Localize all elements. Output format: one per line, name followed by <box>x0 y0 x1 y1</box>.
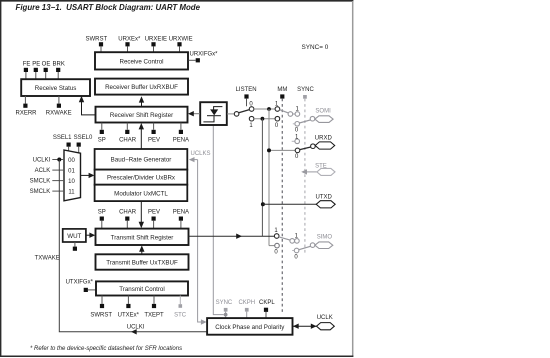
stub left of SOMI contact 0 <box>293 123 295 125</box>
pin square MM <box>280 94 284 98</box>
svg-text:LISTEN: LISTEN <box>236 87 257 93</box>
pin square OE <box>44 68 48 72</box>
svg-text:SIMO: SIMO <box>317 235 333 241</box>
wire CKPH square down <box>246 312 248 318</box>
svg-text:Transmit Buffer UxTXBUF: Transmit Buffer UxTXBUF <box>106 259 178 266</box>
wire tx PENA square down <box>180 221 182 229</box>
wire UTXIFGx* square to Transmit Control <box>88 289 96 291</box>
stub left of URXD contact 1 <box>292 140 295 142</box>
svg-text:11: 11 <box>68 189 75 195</box>
label ACLK <box>35 168 51 174</box>
box Receiver Shift Register <box>96 107 188 123</box>
label URXWIE <box>169 37 193 43</box>
wire tx PEV square down <box>153 221 155 229</box>
pin square SSEL0 <box>77 143 81 147</box>
label rx PEV <box>148 137 160 143</box>
pin square PE <box>34 68 38 72</box>
svg-text:SP: SP <box>98 137 106 143</box>
switch contact 1 (SIMO) <box>295 239 300 244</box>
pin square URXIFGx* <box>196 58 200 62</box>
pin SIMO gray <box>315 242 333 249</box>
switch LISTEN arm <box>239 110 250 113</box>
tx label PENA <box>173 209 189 215</box>
dashed control line SYNC <box>304 99 306 255</box>
wire transmit output <box>189 235 275 237</box>
svg-text:WUT: WUT <box>67 233 81 240</box>
label BRK <box>53 61 65 67</box>
svg-text:01: 01 <box>68 168 75 174</box>
wire Receive Status up-arrow from Receiver Shift Register <box>79 96 96 115</box>
box Clock Phase and Polarity <box>207 318 292 335</box>
pin square SSEL1 <box>67 143 71 147</box>
label URXD <box>315 136 333 142</box>
pin URXD <box>315 142 335 149</box>
svg-text:SSEL1: SSEL1 <box>53 135 72 141</box>
pin square UTXEx* <box>126 304 130 308</box>
wire Receive Status to RXWAKE square <box>58 96 60 104</box>
mux trapezoid clock selector <box>64 150 81 201</box>
label 0 above LISTEN contact <box>249 102 253 108</box>
label TXWAKE <box>35 255 60 261</box>
label MM <box>277 87 287 93</box>
pin SOMI gray <box>315 116 333 123</box>
label UTXEx* <box>118 313 140 319</box>
svg-text:Receiver Buffer UxRXBUF: Receiver Buffer UxRXBUF <box>105 84 178 91</box>
switch contact 0 (LISTEN row top) <box>249 107 254 112</box>
pin square CKPH gray <box>245 308 249 312</box>
label UCLKI <box>33 157 51 163</box>
label 0 below SIMO contact <box>294 254 298 260</box>
label 1 above SOMI contact <box>296 106 300 112</box>
svg-text:UCLK: UCLK <box>317 315 333 321</box>
wire URXWIE square to Receive Control <box>179 46 181 52</box>
page frame right border <box>352 1 354 357</box>
pin square TXEPT <box>152 304 156 308</box>
svg-text:Baud−Rate Generator: Baud−Rate Generator <box>111 156 172 163</box>
gray arrow into Clock Phase and Polarity left <box>201 319 207 324</box>
label CKPH gray <box>238 300 255 306</box>
wire baud clock down into Transmit Shift Register with arrow <box>139 201 144 228</box>
label RXERR <box>15 110 37 116</box>
wire UCLKS vertical down to clock phase box <box>198 160 202 322</box>
page frame bottom border <box>0 355 353 357</box>
label SYNC (top) <box>297 87 314 93</box>
junction dot bottom row <box>261 117 265 121</box>
label SSEL0 <box>74 135 93 141</box>
switch contact 0 (SIMO lower) <box>294 248 299 253</box>
wire URXEIE square to Receive Control <box>153 46 155 52</box>
box Transmit Buffer UxTXBUF <box>96 254 189 269</box>
stub left of SIMO contact 0 <box>292 250 294 252</box>
label STC gray <box>174 313 187 319</box>
switch contact 1 (URXD upper) <box>295 139 300 144</box>
svg-text:PENA: PENA <box>173 137 189 143</box>
page frame top border <box>0 0 353 2</box>
svg-text:SMCLK: SMCLK <box>30 189 51 195</box>
label SOMI gray <box>315 109 331 115</box>
rx SP square <box>100 130 104 134</box>
arrowhead into UCLK pin (right) <box>311 324 317 329</box>
label SMCLK (10) <box>30 179 51 185</box>
junction dot UTXD <box>261 202 265 206</box>
svg-text:CHAR: CHAR <box>119 137 137 143</box>
wire tx CHAR square down <box>126 221 128 229</box>
switch SIMO arm gray <box>299 246 311 249</box>
wire Transmit Buffer up into Transmit Shift Register with arrow <box>139 245 144 254</box>
svg-text:URXWIE: URXWIE <box>169 37 193 43</box>
tx label SP <box>98 209 106 215</box>
svg-text:PEV: PEV <box>148 209 160 215</box>
box Modulator UxMCTL <box>95 185 188 201</box>
mux input label 00 <box>68 158 75 164</box>
pin square SWRST bottom <box>100 304 104 308</box>
switch URXD arm black <box>300 147 311 150</box>
svg-text:00: 00 <box>68 158 75 164</box>
wire PE square to Receive Status <box>35 72 37 79</box>
wire tx SP square down <box>101 221 103 229</box>
pin square RXERR <box>23 104 27 108</box>
svg-text:TXEPT: TXEPT <box>144 313 164 319</box>
wire SMCLK(11) to mux <box>52 190 64 192</box>
pin square STC gray <box>179 304 183 308</box>
box Receive Status <box>21 79 90 96</box>
svg-text:CHAR: CHAR <box>119 209 137 215</box>
label 1 above URXD contact <box>295 135 299 141</box>
label URXIFGx* <box>190 52 219 58</box>
pin STE gray <box>317 168 335 175</box>
wire baud clock up into Receiver Shift Register with arrow <box>139 123 144 149</box>
junction dot SYNC gray <box>224 313 228 317</box>
tx SP square <box>100 217 104 221</box>
wire UCLKS gray arrow into Baud-Rate Generator <box>189 157 198 162</box>
label SMCLK (11) <box>30 189 51 195</box>
wire SYNC square down to junction <box>225 312 227 318</box>
box Transmit Control <box>96 281 188 295</box>
wire Receive Control to URXIFGx* square <box>189 59 196 61</box>
wire mux output arrow to prescaler <box>81 173 95 178</box>
pin square CKPL <box>264 308 268 312</box>
pin square URXEx* <box>125 42 129 46</box>
label OE <box>42 61 51 67</box>
label 1 below <box>249 123 253 129</box>
rx CHAR square <box>125 130 129 134</box>
link MM pole to SOMI contact <box>293 113 295 115</box>
tx PEV square <box>152 217 156 221</box>
svg-text:SWRST: SWRST <box>90 313 112 319</box>
mux input label 10 <box>68 179 75 185</box>
svg-text:CKPL: CKPL <box>259 300 275 306</box>
wire Transmit Control to UTXEx* square <box>127 296 129 304</box>
svg-text:SYNC= 0: SYNC= 0 <box>302 44 329 51</box>
svg-text:SMCLK: SMCLK <box>30 179 51 185</box>
pin square LISTEN <box>244 94 248 98</box>
label rx SP <box>98 137 106 143</box>
switch contact 0 (SOMI lower) <box>295 122 300 127</box>
label TXEPT <box>144 313 164 319</box>
pin square TXWAKE <box>73 247 77 251</box>
label PE <box>32 61 40 67</box>
page frame left border <box>0 0 2 357</box>
svg-text:URXD: URXD <box>315 136 333 142</box>
tx CHAR square <box>125 217 129 221</box>
wire from receive buffer block down to SYNC junction <box>213 125 223 314</box>
svg-text:PENA: PENA <box>173 209 189 215</box>
junction dot UCLKI <box>57 158 61 162</box>
label UCLK <box>317 315 333 321</box>
pin square SWRST top <box>99 42 103 46</box>
wire bottom row <box>254 118 275 120</box>
svg-text:* Refer to the device-specific: * Refer to the device-specific datasheet… <box>30 346 182 352</box>
svg-text:SSEL0: SSEL0 <box>74 135 93 141</box>
svg-text:SYNC: SYNC <box>297 87 314 93</box>
label 1 above MM contact <box>275 102 279 108</box>
rx PEV square <box>152 130 156 134</box>
svg-text:UTXEx*: UTXEx* <box>118 313 140 319</box>
footnote <box>30 346 182 352</box>
wire CKPL square down <box>265 312 267 318</box>
wire UCLK bidirectional <box>293 325 317 327</box>
switch MM arm gray <box>280 110 289 113</box>
title <box>16 3 201 12</box>
wire WUT arrow to Transmit Shift Register <box>86 233 95 238</box>
label rx PENA <box>173 137 189 143</box>
svg-text:RXERR: RXERR <box>15 110 37 116</box>
label 0 below <box>275 123 279 129</box>
box Baud-Rate Generator <box>95 149 188 170</box>
wire rx SP square up <box>101 123 103 130</box>
junction dot top row <box>267 107 271 111</box>
svg-text:UTXD: UTXD <box>316 194 333 200</box>
svg-text:BRK: BRK <box>53 61 65 67</box>
pin UTXD <box>316 201 335 208</box>
svg-text:Receive Control: Receive Control <box>119 59 163 66</box>
wire top row contact to MM contact <box>254 108 275 110</box>
wire rx PEV square up <box>153 123 155 130</box>
wire SSEL1 square to mux <box>68 147 70 151</box>
wire shift register up to receiver buffer with arrow <box>139 96 144 106</box>
switch loopback pole <box>290 239 295 244</box>
label CKPL <box>259 300 275 306</box>
wire OE square to Receive Status <box>45 72 47 79</box>
switch contact 0 (MM row bottom) <box>275 116 280 121</box>
label 1 above SIMO contact <box>295 233 299 239</box>
arrowhead UCLKI pointing left <box>131 329 137 334</box>
label SSEL1 <box>53 135 72 141</box>
svg-text:ACLK: ACLK <box>35 168 51 174</box>
switch SOMI pole <box>310 116 315 121</box>
wire URXD junction to contact 0 <box>269 149 295 151</box>
label RXWAKE <box>46 110 72 116</box>
svg-text:UCLKI: UCLKI <box>33 157 51 163</box>
wire UCLKI to mux <box>52 159 64 161</box>
pin UCLK <box>317 323 335 330</box>
svg-text:Clock Phase and Polarity: Clock Phase and Polarity <box>215 324 285 331</box>
label LISTEN <box>236 87 257 93</box>
tx PENA square <box>179 217 183 221</box>
svg-text:URXIFGx*: URXIFGx* <box>190 52 219 58</box>
switch contact 1 (loopback, SIMO row) <box>274 234 279 239</box>
svg-text:URXEIE: URXEIE <box>145 37 167 43</box>
switch SOMI arm gray <box>299 120 310 123</box>
svg-text:UTXIFGx*: UTXIFGx* <box>66 279 94 285</box>
label SWRST bottom <box>90 313 112 319</box>
wire rx PENA square up <box>180 123 182 130</box>
pin square SYNC gray top <box>303 95 307 99</box>
vertical wire V2 receive (x=269) <box>268 109 270 246</box>
wire schmitt box to Receiver Shift Register with arrow <box>188 111 200 116</box>
pin square SYNC gray <box>224 308 228 312</box>
junction dot URXD <box>267 148 271 152</box>
label 0 below URXD contact <box>295 154 299 160</box>
wire UCLKI long feedback from Clock Phase box to mux input <box>59 160 207 332</box>
pin square URXWIE <box>177 42 181 46</box>
svg-text:FE: FE <box>23 61 31 67</box>
vertical wire V1 loopback (x=262.4) <box>261 119 263 237</box>
box Prescaler/Divider UxBRx <box>95 170 188 185</box>
svg-text:Receive Status: Receive Status <box>35 85 77 92</box>
wire BRK square to Receive Status <box>57 72 59 79</box>
wire schmitt box to LISTEN switch pole <box>227 113 234 115</box>
switch contact 1 (MM row top) <box>275 107 280 112</box>
arrowhead into Clock Phase box (left) <box>293 324 299 329</box>
box Receive Control <box>95 52 188 69</box>
wire Transmit Control to TXEPT square <box>153 296 155 304</box>
label UCLKS <box>191 151 211 157</box>
wire URXEx* square to Receive Control <box>127 46 129 52</box>
svg-text:MM: MM <box>277 87 287 93</box>
svg-text:Transmit Control: Transmit Control <box>119 286 165 293</box>
label UTXIFGx* <box>66 279 94 285</box>
svg-text:SP: SP <box>98 209 106 215</box>
label rx CHAR <box>119 137 137 143</box>
label FE <box>23 61 31 67</box>
switch SIMO pole <box>310 243 315 248</box>
switch contact 1 (LISTEN row bottom) <box>249 116 254 121</box>
switch contact 1 (SOMI) <box>295 112 300 117</box>
wire WUT to TXWAKE square <box>74 242 76 247</box>
switch URXD pole <box>311 144 316 149</box>
pin square UTXIFGx* <box>84 288 88 292</box>
box Transmit Shift Register <box>96 229 189 245</box>
switch contact 0 (URXD) <box>295 148 300 153</box>
svg-text:Transmit Shift Register: Transmit Shift Register <box>111 234 174 241</box>
svg-text:STC: STC <box>174 313 187 319</box>
label URXEIE <box>145 37 167 43</box>
wire STE with gray arrow pointing left <box>301 169 317 174</box>
label SYNC= 0 <box>302 44 329 51</box>
mux input label 01 <box>68 168 75 174</box>
box receive buffer (schmitt trigger) <box>200 102 227 125</box>
wire FE square to Receive Status <box>25 72 27 79</box>
label STE gray <box>315 164 327 170</box>
svg-text:SOMI: SOMI <box>315 109 331 115</box>
label URXEx* <box>118 37 141 43</box>
svg-text:OE: OE <box>42 61 51 67</box>
svg-text:10: 10 <box>68 179 75 185</box>
box WUT <box>63 229 86 242</box>
arrowhead transmit output <box>236 234 242 239</box>
label 0 below SOMI contact <box>295 127 299 133</box>
svg-text:Figure 13−1. USART Block Diag: Figure 13−1. USART Block Diagram: UART M… <box>16 3 201 12</box>
label 1 above loopback contact <box>274 228 278 234</box>
svg-text:URXEx*: URXEx* <box>118 37 141 43</box>
svg-text:PEV: PEV <box>148 137 160 143</box>
svg-text:UCLKI: UCLKI <box>127 324 145 330</box>
svg-text:Prescaler/Divider UxBRx: Prescaler/Divider UxBRx <box>107 175 176 182</box>
svg-text:SYNC: SYNC <box>216 300 233 306</box>
svg-text:Modulator UxMCTL: Modulator UxMCTL <box>114 191 168 198</box>
switch MM pole <box>288 112 293 117</box>
wire SSEL0 square to mux <box>78 147 80 153</box>
rx PENA square <box>179 130 183 134</box>
svg-text:UCLKS: UCLKS <box>191 151 211 157</box>
svg-text:PE: PE <box>32 61 40 67</box>
wire SWRST square to Receive Control <box>100 46 102 52</box>
mux input label 11 <box>68 189 75 195</box>
tx label CHAR <box>119 209 137 215</box>
pin square URXEIE <box>151 42 155 46</box>
label SWRST (top) <box>85 37 107 43</box>
wire LISTEN square down to switch arm <box>246 99 248 107</box>
dashed control line MM <box>281 99 283 315</box>
tx label PEV <box>148 209 160 215</box>
wire Receive Status to RXERR square <box>24 96 26 104</box>
svg-text:Receiver Shift Register: Receiver Shift Register <box>110 112 173 119</box>
wire UTXD <box>263 203 317 205</box>
label SIMO gray <box>317 235 333 241</box>
switch LISTEN pole <box>234 112 239 117</box>
label UTXD <box>316 194 333 200</box>
label 0 below loopback contact <box>274 250 278 256</box>
svg-text:CKPH: CKPH <box>238 300 255 306</box>
pin square BRK <box>56 68 60 72</box>
switch loopback arm gray <box>279 237 290 240</box>
svg-text:RXWAKE: RXWAKE <box>46 110 72 116</box>
box Receiver Buffer UxRXBUF <box>95 79 188 95</box>
label UCLKI bottom <box>127 324 145 330</box>
wire ACLK to mux <box>52 169 64 171</box>
label SYNC (clock box) gray <box>216 300 233 306</box>
svg-text:SWRST: SWRST <box>85 37 107 43</box>
wire rx CHAR square up <box>126 123 128 130</box>
wire V2 to loopback contact 0 <box>269 245 275 247</box>
wire Transmit Control to STC square <box>179 296 181 305</box>
switch contact 0 (loopback lower) <box>275 243 280 248</box>
wire SMCLK(10) to mux <box>52 180 64 182</box>
pin square RXWAKE <box>57 104 61 108</box>
wire Transmit Control to SWRST square <box>101 296 103 304</box>
svg-text:TXWAKE: TXWAKE <box>35 255 60 261</box>
pin square FE <box>24 68 28 72</box>
